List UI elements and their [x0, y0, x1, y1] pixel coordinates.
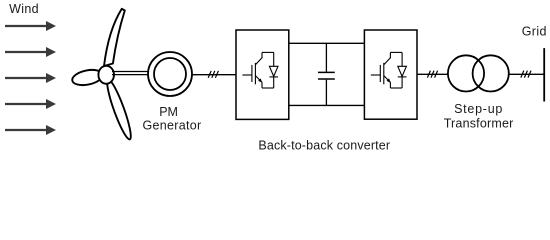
transformer T1 secondary winding: [473, 55, 509, 91]
generator G1 inner circle: [154, 58, 186, 90]
generator G1 outer circle: [148, 52, 192, 96]
turbine blade lower: [103, 78, 134, 141]
wind arrow 2: [5, 47, 56, 57]
DC link bottom rail: [289, 104, 365, 106]
turbine blade upper: [104, 9, 125, 66]
turbine blade left: [71, 67, 104, 87]
svg-text:Step-up: Step-up: [454, 102, 503, 116]
converter box 2 (grid-side): [364, 30, 417, 119]
DC link capacitor C1: [318, 43, 335, 105]
IGBT Q1 with diode D1: [242, 52, 278, 88]
svg-text:Wind: Wind: [9, 2, 39, 16]
three-phase slashes generator side: [208, 71, 218, 78]
turbine shaft: [112, 72, 148, 75]
wind arrow 5: [5, 125, 56, 135]
wind arrow 3: [5, 73, 56, 83]
grid bus bar: [543, 48, 545, 101]
wind arrow 1: [5, 21, 56, 31]
three-phase slashes grid side: [521, 71, 531, 78]
DC link top rail: [289, 42, 365, 44]
three-phase slashes converter side: [427, 71, 437, 78]
turbine hub: [98, 66, 114, 84]
svg-text:Generator: Generator: [143, 118, 202, 132]
svg-text:Back-to-back converter: Back-to-back converter: [258, 139, 390, 153]
wind arrow 4: [5, 99, 56, 109]
IGBT Q2 with diode D2: [371, 52, 407, 88]
transformer T1 primary winding: [448, 55, 484, 91]
svg-text:Transformer: Transformer: [444, 116, 514, 130]
svg-text:Grid: Grid: [522, 25, 547, 39]
converter box 1 (machine-side): [236, 30, 289, 119]
svg-text:PM: PM: [159, 105, 178, 119]
wire transformer to grid: [509, 73, 544, 75]
wire generator to converter: [192, 74, 236, 76]
wire converter to transformer: [417, 73, 448, 75]
